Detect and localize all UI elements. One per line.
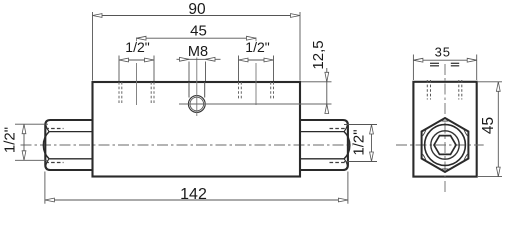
plug inner circle — [431, 131, 459, 159]
left hex end nut — [45, 120, 93, 170]
pilot hole circle inner — [190, 97, 204, 111]
right hex facet lines — [301, 132, 345, 159]
dimension 12,5 line — [325, 68, 329, 114]
valve body outline — [93, 82, 301, 177]
left hex middle facet arc — [43, 132, 49, 159]
svg-text:1/2": 1/2" — [125, 39, 149, 55]
dimension 12,5 extension lines — [179, 82, 332, 104]
hex plug chamfer arcs — [423, 121, 468, 169]
dimension 1/2 right top text — [245, 39, 269, 55]
svg-text:45: 45 — [190, 23, 207, 40]
dimension 90 text — [188, 1, 206, 18]
left hex top facet arc — [46, 125, 49, 132]
dimension 45 end view line — [496, 82, 500, 177]
end view square body — [413, 82, 476, 177]
dimension 12,5 text — [310, 40, 327, 69]
dimension 45 text — [190, 23, 207, 40]
svg-text:1/2": 1/2" — [2, 127, 19, 153]
right hex thread hidden lines — [330, 129, 348, 163]
dimension 1/2 far right line — [370, 125, 374, 162]
dimension M8 arrows — [177, 57, 221, 81]
dimension 90 extension lines — [93, 12, 301, 81]
dimension 1/2 left top line — [119, 58, 154, 62]
dimension M8 text — [188, 44, 208, 60]
left hex thread hidden lines — [45, 129, 63, 163]
svg-text:35: 35 — [435, 45, 451, 60]
svg-text:12,5: 12,5 — [310, 40, 327, 69]
dimension 1/2 far left text — [2, 127, 19, 153]
right hex middle facet arc — [344, 132, 350, 159]
svg-text:45: 45 — [480, 117, 497, 134]
dimension 142 line — [45, 198, 348, 202]
dimension 1/2 far right extension lines — [344, 125, 377, 162]
dimension 1/2 far left line — [22, 124, 26, 160]
right port centerline — [255, 38, 257, 106]
dimension 1/2 right top line — [239, 58, 274, 62]
left port thread hidden lines — [119, 82, 154, 104]
end view horizontal centerline — [396, 144, 484, 146]
end view mounting hole hidden lines left — [427, 80, 430, 100]
dimension 35 text — [435, 45, 451, 60]
dimension 45 line — [137, 36, 257, 40]
svg-text:1/2": 1/2" — [351, 129, 368, 155]
dimension 35 extension lines — [413, 55, 476, 81]
dimension 90 line — [93, 14, 301, 18]
svg-text:142: 142 — [180, 186, 207, 203]
pilot hole circle outer — [188, 96, 205, 113]
M8 hole wall lines — [189, 82, 205, 98]
dimension 45 end view extension lines — [478, 82, 502, 177]
plug socket hex — [434, 136, 456, 155]
end view vertical centerline — [444, 64, 446, 192]
right port extension lines — [239, 56, 274, 82]
dimension 142 extension lines — [45, 172, 348, 204]
dimension 45 end view text — [480, 117, 497, 134]
dimension 1/2 left top text — [125, 39, 149, 55]
axis centerline left view — [21, 144, 353, 146]
svg-text:M8: M8 — [188, 44, 208, 60]
right hex top facet arc — [344, 125, 347, 132]
left hex facet lines — [49, 132, 92, 159]
right port thread hidden lines — [239, 82, 274, 100]
M8 centerline — [196, 58, 198, 117]
svg-text:90: 90 — [188, 1, 206, 18]
end view mounting hole hidden lines right — [459, 80, 462, 100]
dimension 1/2 far right text — [351, 129, 368, 155]
dimension 1/2 far left extension lines — [15, 124, 48, 160]
plug outer circle — [425, 125, 466, 166]
left port centerline — [136, 38, 138, 106]
dimension 35 line — [413, 58, 476, 62]
hex plug outline — [422, 118, 469, 172]
svg-text:1/2": 1/2" — [245, 39, 269, 55]
dimension 142 text — [180, 186, 207, 203]
right hex end nut — [300, 120, 348, 170]
left port extension lines — [119, 56, 154, 82]
left hex bottom facet arc — [46, 159, 49, 166]
right hex bottom facet arc — [344, 159, 347, 166]
equal marks — [430, 63, 459, 66]
